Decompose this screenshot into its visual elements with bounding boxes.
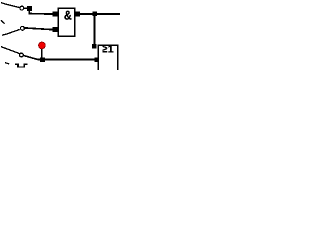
node pin square S1 output — [27, 6, 32, 11]
switch S3 stub — [1, 47, 5, 49]
switch S3 lever — [5, 48, 19, 53]
dash mark bottom left — [5, 63, 9, 64]
OR gate U2 label >=1 — [103, 46, 108, 53]
switch S1 contact circle — [20, 6, 24, 10]
AND gate U1 label & — [64, 11, 71, 20]
switch S1 stub — [1, 3, 6, 5]
wire up from junction B to red node — [41, 49, 43, 58]
switch S2 stub — [1, 20, 5, 23]
red node indicator — [39, 42, 46, 49]
wire from S1 circle — [24, 7, 28, 9]
node pin square AND input 2 — [53, 27, 58, 32]
wire down from S1 node — [28, 11, 30, 14]
switch S3 contact circle — [20, 53, 24, 57]
OR gate U2 box — [98, 45, 118, 75]
U-shaped mark (cropped symbol) — [15, 64, 27, 68]
switch S1 lever — [6, 4, 20, 8]
wire to AND input 2 — [25, 28, 55, 30]
node pin square OR input 2 — [95, 57, 100, 62]
wire AND output — [80, 13, 93, 15]
node pin square AND output — [75, 12, 80, 17]
AND gate U1 box — [58, 8, 75, 36]
switch S2 lever (open) — [2, 29, 20, 35]
node junction square A — [92, 12, 97, 17]
wire to AND input 1 — [29, 13, 53, 15]
node junction square B under red node — [40, 57, 45, 62]
wire flat to OR input 2 — [38, 59, 96, 61]
node pin square AND input 1 — [53, 12, 58, 17]
switch S2 contact circle — [21, 26, 25, 30]
wire to right edge — [97, 13, 121, 15]
node pin square OR input 1 — [92, 44, 97, 49]
wire down from junction A — [93, 16, 95, 44]
wire from S3 circle slanting down — [24, 56, 39, 60]
